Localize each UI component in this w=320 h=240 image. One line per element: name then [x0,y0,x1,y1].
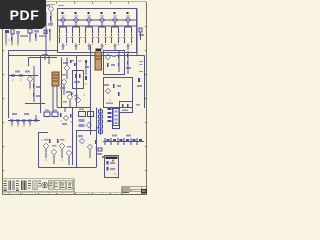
diode D1 cluster [139,28,144,40]
resistor R3 cluster [44,29,51,42]
legend text column 2 [16,181,19,191]
capacitor C3 cell [83,37,94,47]
voltage reg boundary U2 [104,51,125,75]
label text right rail [139,61,143,72]
legend meter symbol [42,182,48,188]
legend symbol box D [67,181,73,190]
capacitor C20 [70,114,72,123]
legend text column 4 [38,181,41,187]
sheet inner border bottom [3,192,147,194]
resistor R40 [107,63,115,67]
junction dots Q9 [59,36,67,37]
resistor R12a emitter [98,27,99,36]
capacitor C12 [85,60,89,75]
capacitor C1 cluster [28,29,39,43]
capacitor C1 cell [57,37,68,47]
transistor Q13 output cell [112,12,119,27]
label texts driver [62,60,78,103]
transistor Q11 output cell [86,12,93,27]
IC U3 [44,110,50,117]
capacitor C9 stack [33,66,40,102]
junction dots Q12 [98,36,106,37]
sheet border frame [3,2,147,195]
resistor R9b emitter [66,27,67,36]
connector J1 stack [96,108,103,135]
transistor Q25 [62,116,68,125]
wire bus lower [73,56,97,168]
resistor R11a emitter [85,27,86,36]
resistor R13b emitter [118,27,119,36]
transistor Q12 output cell [99,12,106,27]
junction dots R20 [12,79,30,89]
transistor Q9 output cell [60,12,67,27]
polarity dots U1 [5,39,18,45]
transistor Q22 [104,84,110,93]
legend barcode block 1 [9,180,15,190]
collector bus wire [58,25,136,27]
transistor Q8 driver [46,5,53,27]
transistor Q21 [106,55,116,59]
wire emitter drop Q10 [73,38,80,50]
resistor R41 [113,84,121,88]
capacitor C4 cell [96,37,107,47]
legend gray box [33,181,37,190]
resistor R10a emitter [72,27,73,36]
transistor Q27 lower [52,145,57,164]
output bias boundary [39,130,97,168]
wire emitter drop Q12 [99,38,106,50]
legend text column 3 [28,181,31,189]
resistor R32 [70,60,82,66]
junction dots R50 [11,125,30,126]
transistor Q10 output cell [73,12,80,27]
resistor R61 [95,140,97,149]
capacitor C2 cell [70,37,81,47]
capacitor C17 column [126,51,131,74]
relay module boundary [105,156,119,178]
wire node A [20,12,46,55]
resistor R43 right [137,78,142,87]
transistor Q16 [28,77,32,88]
wire driver verticals [64,45,91,135]
connector J2 tall [106,103,120,129]
legend barcode block 2 [21,180,27,190]
junction dots Q10 [72,36,80,37]
IC U4 [52,110,58,117]
junction dots lower [41,139,62,160]
junction dots Q13 [111,36,119,37]
legend symbol box A [48,181,53,190]
resistor R42 [109,92,119,101]
resistor R14b emitter [131,27,132,36]
junction dots Q14 [124,36,132,37]
IC U1 input network [5,29,20,44]
supply rail bus [9,55,145,57]
legend symbol box C [60,181,65,190]
legend strip box [3,179,75,192]
resistor R31 [85,76,87,85]
capacitor C6 cell [122,37,133,47]
transistor Q30 [78,135,84,143]
title block [122,187,147,195]
driver section boundary [57,58,90,108]
resistor cluster right edge [120,102,141,113]
transistor Q17 [63,62,69,70]
legend text column 1 [4,181,7,191]
wire emitter drop Q13 [112,38,119,50]
transistor Q31 [88,145,92,158]
transistor Q19 [66,91,72,99]
resistor R14a emitter [124,27,125,36]
wire stubs R50 [12,115,36,125]
output stage boundary box [58,9,137,53]
resistor R12b emitter [105,27,106,36]
resistor R9a emitter [59,27,60,36]
label text net [42,54,48,55]
filter ladder RC row [103,135,144,146]
junction dot relay [116,177,118,179]
resistor R11b emitter [92,27,93,36]
transistor Q20 [76,94,85,102]
wire mid-left vertical [25,56,45,114]
wire emitter drop Q14 [125,38,132,50]
transformer T1 [52,72,59,86]
logo mark [141,189,146,194]
relay K1 parts [107,160,116,175]
resistor R20 chain [9,71,38,77]
capacitor C16 [118,51,120,72]
transistor Q14 output cell [125,12,132,27]
IC U5 rows [79,109,94,128]
input filter chain R50 [8,113,40,122]
resistor R33 [71,92,78,99]
wire rail drops [137,9,145,109]
resistor R60 [49,139,59,143]
wire emitter drop Q9 [60,38,67,50]
label text output stage title [47,4,64,6]
resistor R13a emitter [111,27,112,36]
resistor R30 [74,74,81,83]
resistor R10b emitter [79,27,80,36]
junction dots Q11 [85,36,93,37]
cluster Q32 with dot [97,148,104,158]
transistor Q28 lower [60,139,65,158]
transistor Q26 lower [44,139,49,158]
connector J3 [113,109,119,126]
wire centre drops [45,56,65,113]
base bus wire [58,19,136,21]
PDF badge overlay [0,0,46,29]
wire emitter drop Q11 [86,38,93,50]
transistor Q18 [60,80,66,89]
legend symbol box B [54,181,59,190]
capacitor C5 cell [109,37,120,47]
protection boundary [104,78,133,108]
bias network boundary [9,51,58,119]
capacitor C15 electrolytic [95,49,102,71]
transistor Q29 lower [67,146,72,165]
resistor R55 [60,113,62,122]
